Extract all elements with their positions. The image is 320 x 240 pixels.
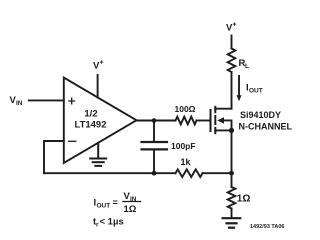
wire 1k to source node [203,172,232,174]
wire 1Ω to ground [231,209,233,218]
node VIN label [10,95,23,107]
svg-text:Si9410DY: Si9410DY [240,110,281,120]
wire 1k node to 1Ω [231,173,233,187]
node B (cap bottom junction dot) [152,171,157,176]
svg-text:L: L [245,63,249,70]
svg-text:LT1492: LT1492 [74,120,106,131]
svg-text:1492/93 TA06: 1492/93 TA06 [250,224,284,230]
node A (output junction dot) [152,118,157,123]
svg-text:IN: IN [16,100,23,107]
svg-text:1/2: 1/2 [84,109,97,120]
svg-text:OUT: OUT [249,88,263,95]
svg-text:100Ω: 100Ω [175,104,196,114]
svg-text:1Ω: 1Ω [124,204,137,215]
power V+ (op-amp supply) [93,60,104,98]
wire feedback (inverting input to output rail) [44,141,64,173]
svg-text:1Ω: 1Ω [237,193,251,204]
svg-text:+: + [100,60,104,67]
wire RL to drain [231,72,233,109]
wire 100Ω to gate [197,120,210,122]
current arrow IOUT [237,76,263,101]
svg-text:=: = [113,198,118,208]
wire source to 1k node [231,130,233,173]
resistor RL [228,49,249,73]
ground (bottom) [223,218,241,228]
formula IOUT = VIN / 1Ω [94,191,137,215]
power V+ (drain supply) [226,22,237,49]
resistor 1k [176,157,203,177]
svg-text:< 1µs: < 1µs [100,217,124,228]
fraction bar [123,201,141,203]
wire bottom rail left [44,172,176,174]
op-amp U1 1/2 LT1492 [64,78,137,164]
transistor Q1 Si9410DY N-channel MOSFET [211,107,293,133]
capacitor C1 100pF [142,121,196,174]
svg-text:+: + [233,22,237,29]
svg-text:100pF: 100pF [171,141,196,151]
svg-text:N-CHANNEL: N-CHANNEL [239,122,293,132]
wire op-amp output [137,120,176,122]
svg-text:1k: 1k [180,157,191,167]
svg-text:OUT: OUT [97,203,111,210]
resistor 100Ω [175,104,197,124]
ground (op-amp) [90,143,106,166]
resistor 1Ω [228,187,251,209]
wire VIN input [29,99,64,101]
node C (source/1k junction dot) [229,171,234,176]
formula tr < 1µs [93,217,124,229]
